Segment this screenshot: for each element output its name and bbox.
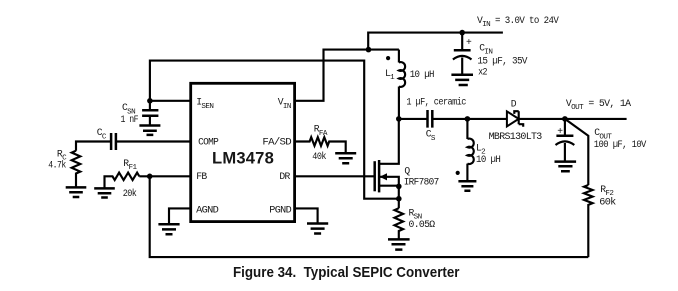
svg-text:D: D <box>511 98 517 109</box>
inductor L2 10uH <box>456 119 501 181</box>
wire: top VIN rail <box>368 33 503 50</box>
svg-text:40k: 40k <box>312 151 326 162</box>
node: VOUT node <box>562 116 568 122</box>
inductor L1 10uH <box>385 50 435 119</box>
ground below R_FA <box>335 153 356 163</box>
wire: diode cathode to VOUT <box>519 118 627 120</box>
resistor R_F1 20k <box>105 158 191 199</box>
resistor R_C 4.7k <box>48 149 80 188</box>
resistor R_FA 40k <box>295 124 346 163</box>
svg-text:FA/SD: FA/SD <box>262 137 292 148</box>
svg-text:20k: 20k <box>123 188 137 199</box>
wire: diagonal VOUT to RF2 <box>565 119 588 185</box>
svg-text:MBRS130LT3: MBRS130LT3 <box>489 131 543 142</box>
svg-text:AGND: AGND <box>196 204 219 215</box>
node: junction top rail / L1 feed <box>366 47 372 53</box>
svg-text:4.7k: 4.7k <box>48 159 66 170</box>
svg-text:0.05Ω: 0.05Ω <box>409 219 436 230</box>
svg-text:100 µF, 10V: 100 µF, 10V <box>594 139 647 150</box>
ground below L2 <box>458 181 476 191</box>
svg-text:10 µH: 10 µH <box>410 69 435 80</box>
svg-text:FB: FB <box>196 171 207 182</box>
node: FB junction <box>147 174 153 180</box>
capacitor C_IN 15uF 35V x2 (polarized) <box>453 30 528 78</box>
wire: AGND pin to ground <box>169 208 191 224</box>
svg-text:Q: Q <box>404 165 410 176</box>
ground below C_OUT <box>555 162 577 172</box>
svg-text:+: + <box>557 126 563 137</box>
capacitor C_S 1uF ceramic <box>406 96 507 142</box>
ground below R_SN <box>388 239 410 249</box>
capacitor C_OUT 100uF 10V (polarized) <box>556 119 647 161</box>
wire: feedback bottom rail <box>150 176 589 257</box>
capacitor C_C <box>76 127 191 151</box>
svg-text:COMP: COMP <box>198 137 219 148</box>
wire: PGND pin to ground <box>295 208 318 223</box>
ground below R_C <box>66 187 87 197</box>
svg-text:IRF7807: IRF7807 <box>404 177 440 188</box>
svg-text:60k: 60k <box>599 197 616 208</box>
node: CS/L2 junction <box>465 116 471 122</box>
resistor R_F2 60k <box>584 184 616 257</box>
node: L1/CS/drain junction <box>396 116 402 122</box>
svg-text:PGND: PGND <box>269 204 292 215</box>
ground below C_SN <box>139 126 160 135</box>
ground AGND <box>158 224 179 234</box>
svg-text:DR: DR <box>279 171 290 182</box>
svg-text:1 µF, ceramic: 1 µF, ceramic <box>406 96 466 107</box>
ground below C_IN <box>451 75 473 85</box>
ground below R_F1 <box>94 188 115 197</box>
wire: ISEN loop (ISEN pin - CSN - over to MOSFET source) <box>150 61 399 199</box>
svg-text:x2: x2 <box>478 67 488 78</box>
wire: switch node rail with CS <box>399 118 428 120</box>
svg-text:LM3478: LM3478 <box>212 149 274 168</box>
svg-text:15 µF, 35V: 15 µF, 35V <box>477 56 527 67</box>
svg-text:1 nF: 1 nF <box>121 114 139 125</box>
svg-text:+: + <box>466 37 472 48</box>
capacitor C_SN with value 1 nF <box>121 101 159 126</box>
transistor Q IRF7807 MOSFET <box>295 119 440 208</box>
svg-text:Figure 34. Typical SEPIC Conv: Figure 34. Typical SEPIC Converter <box>233 264 460 281</box>
diode D MBRS130LT3 <box>489 98 543 142</box>
svg-text:10 µH: 10 µH <box>476 154 501 165</box>
node: CSN junction <box>147 98 153 104</box>
ground PGND <box>307 224 328 234</box>
IC U1 LM3478 (pins ISEN, VIN, COMP, FA/SD, FB, DR, AGND, PGND) <box>191 83 295 221</box>
wire: VIN pin loop to L1 top <box>295 50 399 101</box>
resistor R_SN 0.05ohm <box>395 208 436 240</box>
